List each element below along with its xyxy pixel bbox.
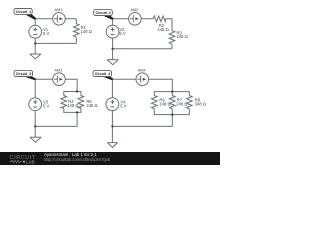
label Circuit_4 [93,71,114,81]
wire: C2 R3 bottom lead [171,44,173,49]
svg-text:AM2: AM2 [130,8,138,12]
voltage source V2 [106,25,126,38]
wire: C1 bottom rail [35,42,76,44]
svg-text:Circuit_3: Circuit_3 [16,72,31,76]
svg-text:248 Ω: 248 Ω [86,103,97,108]
voltage source V4 [106,98,127,111]
svg-text:http://circuitlab.com/cdrtndu3: http://circuitlab.com/cdrtndu3m7gvb [44,157,111,162]
junction C4 bus top [171,90,173,92]
svg-text:5 V: 5 V [119,31,125,36]
ammeter AM2 [129,8,142,25]
svg-text:248 Ω: 248 Ω [177,34,188,39]
label Circuit_2 [94,10,114,20]
wire: C2 bottom rail [113,48,172,50]
wire: C3 V3 top lead [34,79,36,98]
svg-text:148 Ω: 148 Ω [159,102,170,107]
ammeter AM4 [136,68,149,85]
wire: C4 top rail [112,79,172,91]
ammeter AM1 [53,8,66,25]
resistor R1 [74,24,80,38]
svg-text:5 V: 5 V [120,103,126,108]
CircuitLab logo [10,155,36,164]
wire: C1 R1 bottom lead [75,37,77,43]
junction C3 bottom [34,125,36,127]
svg-text:AM4: AM4 [138,68,146,72]
wire: C2 R2 right to corner [166,19,172,31]
wire: C2 V2 top lead [112,19,114,26]
wire: C1 V1 bottom lead [34,38,36,43]
resistor R2 [153,16,166,22]
svg-text:AM3: AM3 [55,68,63,72]
svg-text:5 V: 5 V [43,103,49,108]
svg-text:Circuit_4: Circuit_4 [95,72,110,76]
wire: C1 ground stub [34,43,36,54]
wire: C2 ground stub [112,49,114,60]
junction C1 bottom [34,42,36,44]
ground C4 [107,143,117,148]
junction C2 bottom [111,48,113,50]
ground C2 [107,60,118,65]
wire: C4 V4 bottom lead [111,111,113,127]
resistor R3 [169,31,175,45]
wire: C3 ground stub [34,126,36,137]
svg-text:248 Ω: 248 Ω [176,102,187,107]
svg-text:5 V: 5 V [43,31,49,36]
junction C4 bottom [111,125,113,127]
resistor R8 [187,96,193,110]
wire: C4 parallel top bus [154,92,189,96]
resistor R7 [170,96,176,110]
wire: C3 V3 bottom lead [34,111,36,127]
label Circuit_1 [14,8,36,19]
wire: C3 bus to bottom rail [76,112,78,126]
svg-text:AM1: AM1 [55,8,63,12]
ammeter AM3 [53,68,66,85]
svg-text:LAB: LAB [26,159,35,164]
wire: C1 R1 top lead [75,19,77,24]
junction C3 bus bottom [76,111,78,113]
junction C3 bus top [76,90,78,92]
wire: C4 parallel bottom bus [154,109,189,115]
wire: C4 bottom rail [112,125,172,127]
label Circuit_3 [14,71,36,81]
svg-text:Circuit_2: Circuit_2 [96,11,111,15]
wire: C1 top rail [35,18,76,20]
ground C1 [30,54,41,59]
wire: C4 V4 top lead [111,79,113,98]
wire: C1 V1 top lead [34,19,36,26]
wire: C3 bottom rail [35,125,77,127]
wire: C4 R7 bottom stub [171,109,173,115]
voltage source V1 [29,25,50,38]
wire: C4 ground stub [111,126,113,142]
svg-text:Circuit_1: Circuit_1 [16,10,31,14]
junction C4 bus bottom [171,113,173,115]
voltage source V3 [29,98,50,111]
wire: C3 top rail [35,79,77,91]
wire: C4 bus to bottom rail [171,115,173,127]
wire: C2 top rail left [113,18,154,20]
svg-text:148 Ω: 148 Ω [81,29,92,34]
resistor R4 [61,96,67,109]
wire: C3 parallel top bus [64,92,81,96]
svg-text:148 Ω: 148 Ω [158,27,169,32]
svg-text:148 Ω: 148 Ω [67,103,78,108]
resistor R6 [152,96,158,110]
wire: C2 V2 bottom lead [112,38,114,49]
ground C3 [30,137,41,142]
resistor R5 [78,96,84,109]
wire: C3 parallel bottom bus [64,108,81,112]
wire: C4 R7 top stub [171,92,173,96]
svg-text:348 Ω: 348 Ω [195,102,206,107]
